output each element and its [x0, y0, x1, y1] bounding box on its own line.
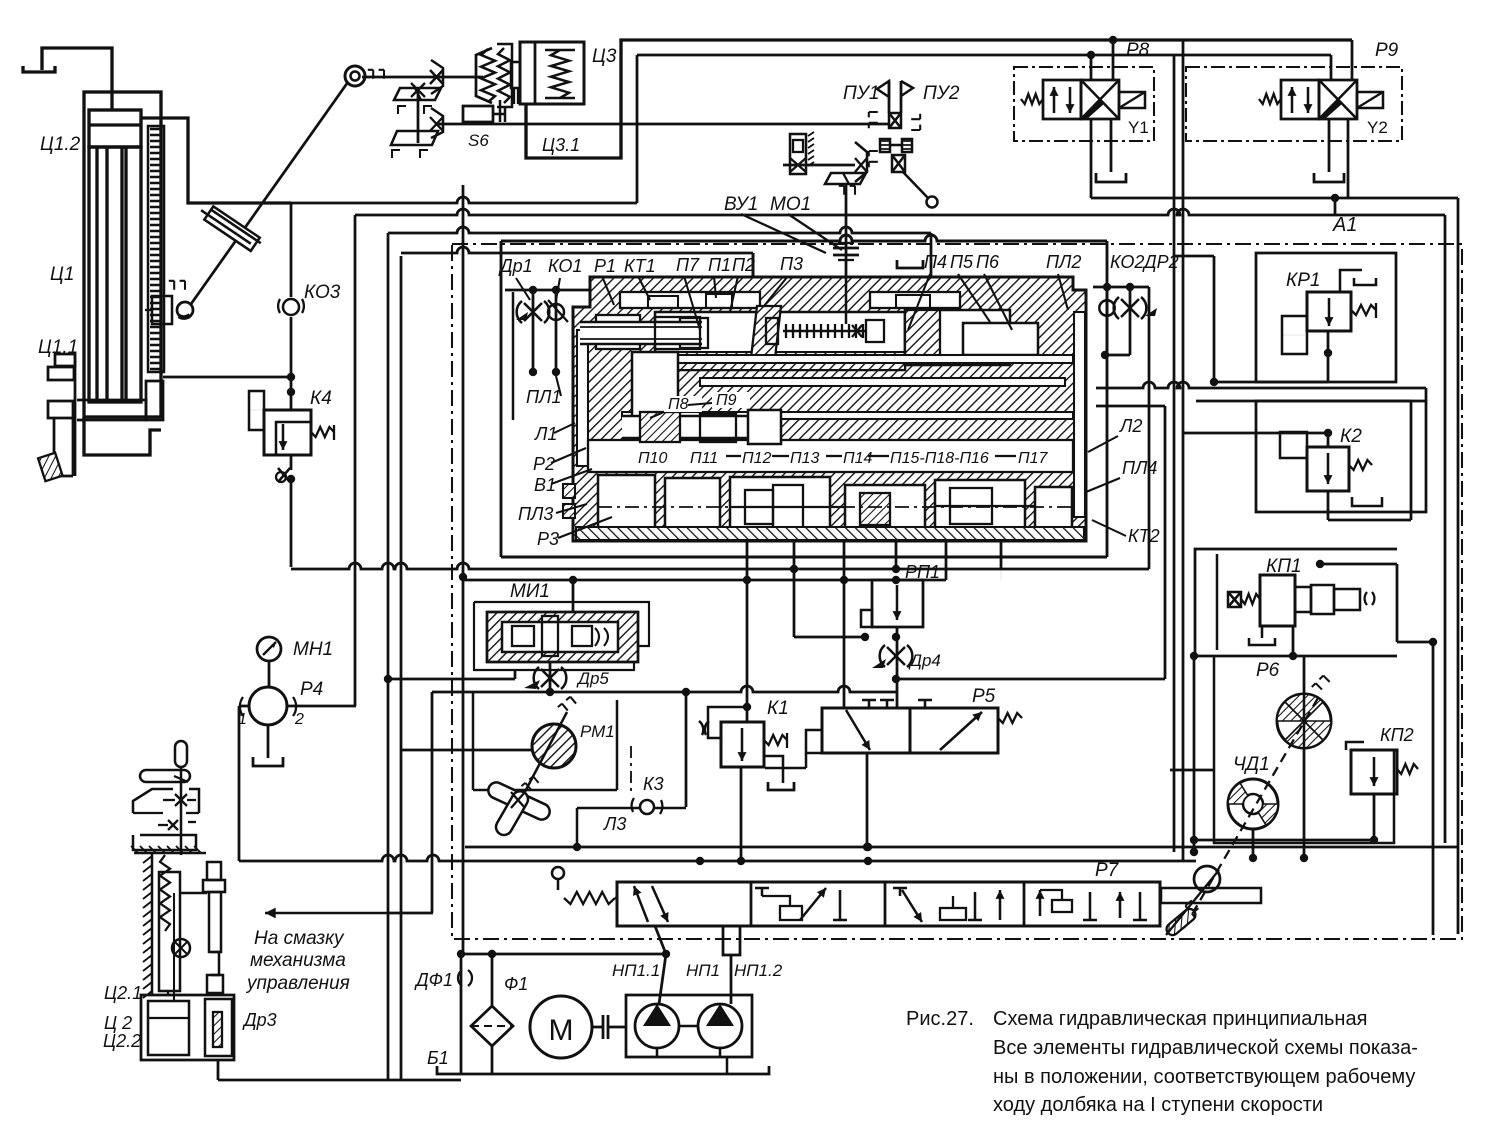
- svg-text:МИ1: МИ1: [510, 581, 550, 602]
- svg-text:КО3: КО3: [304, 282, 341, 303]
- svg-text:ВУ1: ВУ1: [724, 194, 758, 215]
- svg-text:П5: П5: [950, 252, 974, 272]
- svg-text:Все элементы гидравлической сх: Все элементы гидравлической схемы показа…: [993, 1037, 1418, 1059]
- svg-text:Л3: Л3: [603, 814, 626, 834]
- svg-text:К4: К4: [310, 388, 332, 409]
- svg-text:Y2: Y2: [1367, 118, 1388, 137]
- svg-text:НП1.1: НП1.1: [612, 961, 660, 980]
- svg-text:В1: В1: [534, 475, 556, 495]
- svg-text:А1: А1: [1332, 214, 1357, 236]
- svg-text:Ц1: Ц1: [50, 264, 74, 285]
- svg-text:П9: П9: [716, 392, 737, 409]
- svg-text:Ц2.1: Ц2.1: [104, 983, 142, 1003]
- svg-text:П14: П14: [843, 450, 872, 467]
- svg-text:П13: П13: [790, 450, 819, 467]
- svg-text:П12: П12: [742, 450, 771, 467]
- svg-text:Л1: Л1: [534, 424, 557, 444]
- svg-text:управления: управления: [245, 973, 350, 994]
- svg-text:П8: П8: [668, 396, 689, 413]
- svg-text:Ц1.2: Ц1.2: [40, 134, 81, 155]
- svg-text:ЧД1: ЧД1: [1233, 754, 1270, 775]
- svg-text:МН1: МН1: [293, 639, 333, 660]
- svg-text:Др5: Др5: [576, 669, 609, 688]
- svg-text:Р6: Р6: [1256, 660, 1280, 681]
- svg-text:КП2: КП2: [1380, 725, 1414, 745]
- svg-text:Схема гидравлическая принципиа: Схема гидравлическая принципиальная: [993, 1008, 1367, 1030]
- svg-text:П2: П2: [732, 255, 755, 275]
- svg-text:К1: К1: [767, 698, 789, 719]
- svg-text:ДФ1: ДФ1: [414, 970, 453, 990]
- svg-text:Ф1: Ф1: [504, 974, 528, 994]
- svg-text:2: 2: [294, 711, 304, 728]
- svg-text:Ц1.1: Ц1.1: [38, 337, 78, 358]
- svg-text:П15-П18-П16: П15-П18-П16: [890, 450, 989, 467]
- svg-text:Др1: Др1: [498, 256, 533, 276]
- svg-text:ПЛ1: ПЛ1: [526, 387, 561, 407]
- svg-text:К2: К2: [1340, 426, 1362, 447]
- svg-text:КТ1: КТ1: [624, 256, 656, 276]
- svg-text:НП1.2: НП1.2: [734, 961, 783, 980]
- svg-text:ПЛ3: ПЛ3: [518, 504, 553, 524]
- svg-text:ПУ2: ПУ2: [923, 83, 960, 104]
- svg-text:ходу долбяка на I ступени скор: ходу долбяка на I ступени скорости: [993, 1094, 1323, 1116]
- svg-text:КО1: КО1: [548, 256, 582, 276]
- svg-text:П6: П6: [976, 252, 1000, 272]
- svg-text:КР1: КР1: [1286, 270, 1320, 291]
- svg-text:Ц2.2: Ц2.2: [103, 1031, 141, 1051]
- svg-text:К3: К3: [643, 774, 664, 794]
- svg-text:П17: П17: [1018, 450, 1048, 467]
- svg-text:Y1: Y1: [1128, 118, 1149, 137]
- svg-text:КО2: КО2: [1110, 252, 1144, 272]
- svg-text:Б1: Б1: [427, 1048, 449, 1068]
- svg-text:механизма: механизма: [250, 950, 346, 971]
- svg-text:П3: П3: [780, 254, 803, 274]
- svg-text:ПЛ2: ПЛ2: [1046, 252, 1081, 272]
- svg-text:ПУ1: ПУ1: [843, 83, 879, 104]
- svg-text:ны в положении, соответствующе: ны в положении, соответствующем рабочему: [993, 1066, 1415, 1088]
- svg-text:Ц3: Ц3: [592, 46, 617, 67]
- svg-text:П1: П1: [708, 255, 731, 275]
- svg-text:Р2: Р2: [533, 454, 555, 474]
- svg-text:Р8: Р8: [1126, 40, 1150, 61]
- svg-text:РМ1: РМ1: [580, 722, 615, 741]
- svg-text:МО1: МО1: [770, 194, 811, 215]
- svg-text:М: М: [549, 1014, 574, 1047]
- svg-text:Др3: Др3: [242, 1010, 277, 1030]
- svg-text:На смазку: На смазку: [254, 928, 345, 949]
- svg-text:S6: S6: [468, 131, 489, 150]
- svg-text:Ц 2: Ц 2: [104, 1013, 132, 1033]
- svg-text:Р7: Р7: [1095, 860, 1120, 881]
- svg-text:П10: П10: [638, 450, 667, 467]
- svg-text:П11: П11: [690, 450, 718, 467]
- svg-text:Л2: Л2: [1119, 416, 1142, 436]
- svg-text:Др4: Др4: [908, 651, 941, 670]
- svg-text:НП1: НП1: [686, 961, 720, 980]
- svg-text:Ц3.1: Ц3.1: [542, 135, 580, 155]
- svg-text:Рис.27.: Рис.27.: [906, 1008, 974, 1030]
- svg-text:Р5: Р5: [972, 686, 996, 707]
- svg-text:П4: П4: [924, 252, 947, 272]
- svg-text:Р3: Р3: [537, 529, 559, 549]
- svg-text:ПЛ4: ПЛ4: [1122, 458, 1157, 478]
- svg-text:Р1: Р1: [594, 256, 616, 276]
- svg-text:П7: П7: [676, 255, 700, 275]
- svg-text:Р4: Р4: [300, 679, 323, 700]
- svg-text:Р9: Р9: [1375, 40, 1399, 61]
- svg-text:КТ2: КТ2: [1128, 526, 1160, 546]
